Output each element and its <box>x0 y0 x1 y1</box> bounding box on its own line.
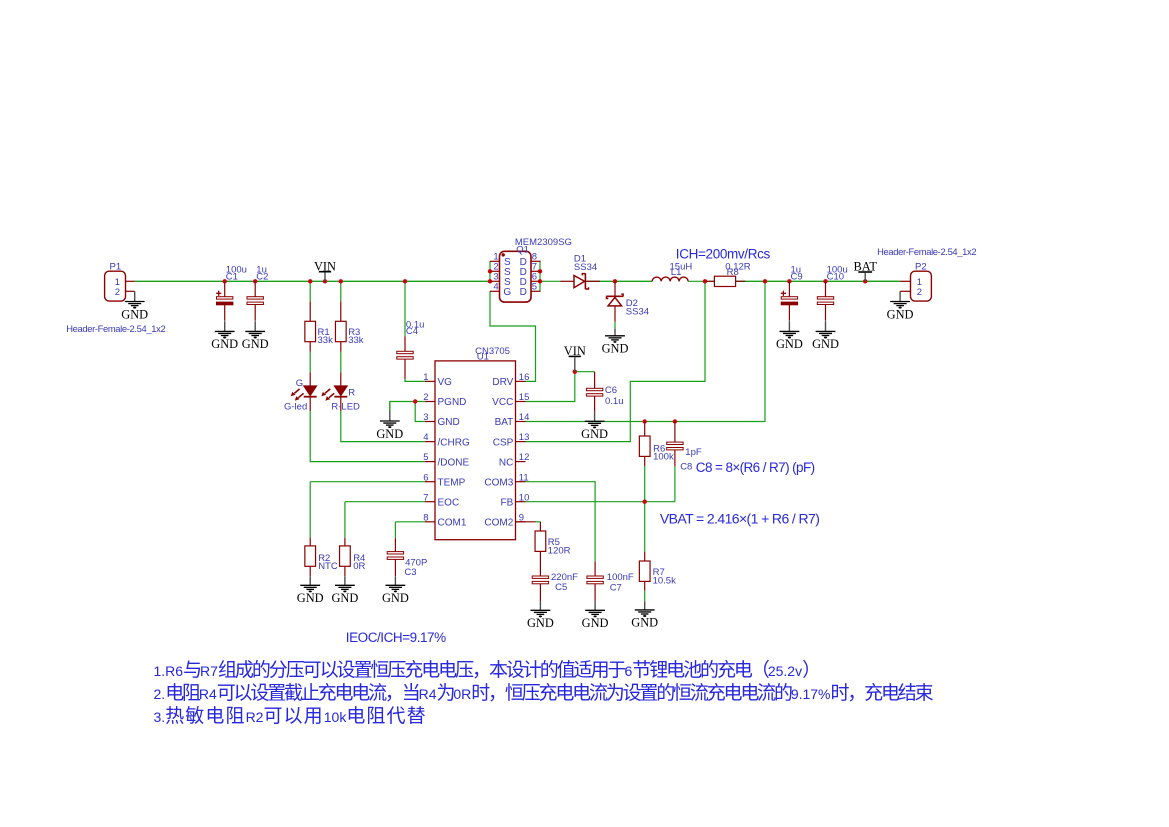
svg-text:GND: GND <box>121 307 148 321</box>
connector P1 Header-Female-2.54_1x2 <box>105 271 126 301</box>
ground at C3 <box>386 576 406 592</box>
junction BAT symbol node <box>863 279 867 283</box>
svg-text:13: 13 <box>519 432 530 443</box>
ground at C1 <box>215 321 235 338</box>
connector P2 Header-Female-2.54_1x2 <box>911 271 932 301</box>
svg-text:1.R6与R7组成的分压可以设置恒压充电电压，本设计的值适用: 1.R6与R7组成的分压可以设置恒压充电电压，本设计的值适用于6节锂电池的充电（… <box>154 659 820 681</box>
svg-text:C10: C10 <box>827 272 844 283</box>
svg-text:VIN: VIN <box>314 259 336 273</box>
junction R6 top on BAT net <box>643 419 647 423</box>
ground at R7 <box>635 601 655 617</box>
wire EOC pin7 horizontal <box>345 501 425 503</box>
wire EOC down to R4 <box>344 502 346 538</box>
svg-text:1: 1 <box>423 372 428 383</box>
svg-text:4: 4 <box>423 432 428 443</box>
wire Q1 source pins tie <box>489 261 491 281</box>
wire Q1 drain pins tie <box>539 261 541 291</box>
svg-text:C8 = 8×(R6 / R7) (pF): C8 = 8×(R6 / R7) (pF) <box>696 460 815 475</box>
junction Q1 source tie B <box>488 279 492 283</box>
svg-text:D: D <box>520 287 527 298</box>
svg-text:Header-Female-2.54_1x2: Header-Female-2.54_1x2 <box>877 246 976 257</box>
svg-text:10.5k: 10.5k <box>653 576 676 587</box>
P2 pin 1 <box>900 280 910 282</box>
svg-text:C1: C1 <box>226 272 238 283</box>
svg-text:G: G <box>296 378 303 389</box>
svg-text:12: 12 <box>519 452 530 463</box>
svg-text:GND: GND <box>812 337 839 351</box>
svg-text:R-LED: R-LED <box>331 402 360 413</box>
svg-text:GND: GND <box>602 342 629 356</box>
svg-text:5: 5 <box>423 452 428 463</box>
wire R7 to ground <box>644 591 646 602</box>
svg-text:8: 8 <box>423 512 428 523</box>
wire COM1 pin8 horizontal <box>395 521 425 523</box>
svg-text:GND: GND <box>631 616 658 630</box>
svg-text:COM3: COM3 <box>484 477 513 488</box>
svg-text:COM1: COM1 <box>438 518 467 529</box>
junction PGND tie node <box>413 399 417 403</box>
power symbol VIN on main rail <box>314 259 336 281</box>
wire R1 to G-led <box>309 352 311 373</box>
svg-text:G: G <box>503 287 511 298</box>
svg-text:R: R <box>348 388 355 399</box>
junction R1 on rail <box>308 279 312 283</box>
wire R3 to R-LED <box>340 352 342 373</box>
capacitor C4 0.1u <box>397 336 413 379</box>
svg-text:VBAT = 2.416×(1 + R6 / R7): VBAT = 2.416×(1 + R6 / R7) <box>660 510 819 526</box>
op-amp U1 CN3705 charger IC <box>425 361 526 540</box>
svg-text:C9: C9 <box>791 272 803 283</box>
LED R-LED <box>321 372 347 411</box>
ground at C5 <box>531 601 551 617</box>
svg-text:VG: VG <box>438 377 453 388</box>
svg-text:1pF: 1pF <box>685 447 702 458</box>
svg-text:GND: GND <box>382 591 409 605</box>
resistor R5 120R <box>516 522 546 576</box>
junction C9 on rail <box>787 279 791 283</box>
svg-text:120R: 120R <box>548 546 571 557</box>
svg-text:U1: U1 <box>477 352 489 363</box>
wire R-LED cathode to /CHRG pin4 <box>341 411 425 442</box>
capacitor C10 100u <box>817 281 833 321</box>
resistor R1 33k <box>305 301 316 351</box>
resistor R6 100k <box>639 422 650 467</box>
svg-text:NTC: NTC <box>318 561 338 572</box>
wire Q1 drain to D1 anode <box>540 280 560 282</box>
svg-text:2: 2 <box>423 392 428 403</box>
svg-text:GND: GND <box>438 417 460 428</box>
svg-text:7: 7 <box>423 492 428 503</box>
capacitor C7 100nF <box>587 561 603 601</box>
svg-text:0.1u: 0.1u <box>605 396 624 407</box>
junction R3 on rail <box>339 279 343 283</box>
svg-text:GND: GND <box>297 591 324 605</box>
wire D1 cathode to L1 <box>587 280 652 282</box>
svg-text:SS34: SS34 <box>626 307 649 318</box>
resistor R2 NTC <box>305 538 316 577</box>
wire TEMP down to R2 <box>309 482 311 538</box>
svg-text:100nF: 100nF <box>607 572 634 583</box>
wire C8 bottom to FB <box>674 466 676 502</box>
junction C4 on rail <box>403 279 407 283</box>
ground at PGND pins 2-3 <box>380 411 400 428</box>
ground at C10 <box>816 321 836 338</box>
ground at C9 <box>780 321 800 338</box>
svg-text:15: 15 <box>519 392 530 403</box>
P2 pin 2 <box>900 290 910 292</box>
ground at P1 pin2 <box>125 291 145 308</box>
junction VIN/VCC/C6 node <box>573 370 577 374</box>
inductor L1 15uH <box>652 277 688 281</box>
junction Q1 drain tie B <box>538 279 542 283</box>
wire TEMP pin6 horizontal <box>310 481 425 483</box>
ground at C2 <box>245 321 265 338</box>
svg-text:/DONE: /DONE <box>438 457 470 468</box>
svg-text:2.电阻R4可以设置截止充电电流，当R4为0R时，恒压充电电: 2.电阻R4可以设置截止充电电流，当R4为0R时，恒压充电电流为设置的恒流充电电… <box>154 682 934 704</box>
ground at R4 <box>335 576 355 592</box>
svg-text:C4: C4 <box>406 326 418 337</box>
junction C10 on rail <box>823 279 827 283</box>
wire PGND tie to GND pin3 <box>415 402 425 422</box>
wire R6 bottom to FB <box>644 466 646 502</box>
diode D2 SS34 (schottky to GND) <box>606 281 623 322</box>
svg-text:BAT: BAT <box>853 260 877 274</box>
power symbol BAT on battery rail <box>853 260 877 282</box>
junction FB divider node <box>643 500 647 504</box>
svg-text:Q1: Q1 <box>516 244 529 255</box>
svg-text:DRV: DRV <box>492 377 513 388</box>
svg-text:PGND: PGND <box>438 397 467 408</box>
wire R8 to P2 (BAT rail) <box>736 280 901 282</box>
junction C2 on rail <box>253 279 257 283</box>
resistor R4 0R <box>340 538 351 577</box>
LED G-led <box>291 372 317 411</box>
capacitor C3 470P <box>387 538 403 576</box>
capacitor C5 220nF <box>532 576 548 601</box>
svg-text:C3: C3 <box>404 567 416 578</box>
wire rail to R3 <box>340 281 342 301</box>
svg-text:C6: C6 <box>605 385 617 396</box>
transistor Q1 MEM2309SG dual PMOS <box>490 251 541 302</box>
svg-text:4: 4 <box>493 281 498 292</box>
svg-text:GND: GND <box>211 337 238 351</box>
wire VCC pin15 to VIN node and C6 <box>526 372 595 402</box>
resistor R7 10.5k <box>639 552 650 591</box>
svg-text:6: 6 <box>423 472 428 483</box>
resistor R3 33k <box>335 301 346 351</box>
svg-text:2: 2 <box>115 287 120 298</box>
svg-text:VCC: VCC <box>492 397 513 408</box>
svg-text:16: 16 <box>519 372 530 383</box>
svg-text:C8: C8 <box>680 462 692 473</box>
svg-text:0R: 0R <box>353 561 365 572</box>
svg-text:TEMP: TEMP <box>438 477 466 488</box>
svg-text:11: 11 <box>519 472 529 483</box>
junction D2 on rail <box>613 279 617 283</box>
wire main rail VIN from P1 to Q1 source <box>135 280 490 282</box>
svg-text:33k: 33k <box>318 335 334 346</box>
wire PGND pin2 to ground <box>390 402 425 412</box>
wire COM3 pin11 to C7 <box>526 482 596 562</box>
svg-text:Header-Female-2.54_1x2: Header-Female-2.54_1x2 <box>66 323 165 334</box>
wire L1 to R8 <box>688 280 714 282</box>
svg-text:5: 5 <box>532 281 537 292</box>
wire COM2 pin9 to R5 <box>536 521 541 523</box>
ground at D2 <box>605 329 625 343</box>
wire BAT pin14 to battery rail <box>526 281 766 421</box>
svg-text:EOC: EOC <box>438 497 460 508</box>
svg-text:L1: L1 <box>671 267 682 278</box>
ground at R2 <box>300 576 320 592</box>
wire CSP sense from rail node to pin13 <box>526 281 706 441</box>
svg-text:VIN: VIN <box>564 344 586 358</box>
svg-text:ICH=200mv/Rcs: ICH=200mv/Rcs <box>676 246 771 261</box>
svg-text:C5: C5 <box>555 582 567 593</box>
P1 pin 1 <box>126 280 135 282</box>
svg-text:R8: R8 <box>727 267 739 278</box>
wire COM1 down to C3 <box>394 522 396 539</box>
svg-text:GND: GND <box>581 427 608 441</box>
svg-text:GND: GND <box>776 337 803 351</box>
junction C1 on rail <box>223 279 227 283</box>
svg-text:GND: GND <box>887 307 914 321</box>
svg-text:COM2: COM2 <box>484 518 513 529</box>
svg-text:GND: GND <box>242 337 269 351</box>
svg-text:2: 2 <box>917 287 922 298</box>
svg-text:FB: FB <box>501 497 514 508</box>
resistor R8 0.12R current sense <box>706 276 745 286</box>
wire rail to C4 <box>404 281 406 336</box>
junction VIN on rail <box>323 279 327 283</box>
svg-text:CSP: CSP <box>493 437 514 448</box>
svg-text:GND: GND <box>331 591 358 605</box>
wire rail to R1 <box>309 281 311 301</box>
wire PGND ground drop <box>389 402 391 412</box>
junction Q1 source tie A <box>488 269 492 273</box>
capacitor C9 1u (polarized) <box>781 281 798 321</box>
wire FB down to R7 <box>644 502 646 552</box>
svg-text:3: 3 <box>423 412 428 423</box>
svg-text:GND: GND <box>582 616 609 630</box>
svg-text:10: 10 <box>519 492 530 503</box>
ground at C6 <box>585 411 605 428</box>
capacitor C1 100u (polarized) <box>216 281 233 321</box>
junction CSP sense node <box>703 279 707 283</box>
svg-text:IEOC/ICH=9.17%: IEOC/ICH=9.17% <box>346 630 446 645</box>
ground at P2 pin2 <box>890 291 910 308</box>
svg-text:C2: C2 <box>256 272 268 283</box>
svg-text:BAT: BAT <box>495 417 514 428</box>
wire BAT node to P2 pin1 <box>865 280 900 282</box>
wire C4 to VG pin1 <box>405 379 425 382</box>
svg-text:GND: GND <box>527 616 554 630</box>
svg-text:P1: P1 <box>110 261 122 272</box>
svg-text:33k: 33k <box>348 335 364 346</box>
svg-text:3.热敏电阻R2可以用10k电阻代替: 3.热敏电阻R2可以用10k电阻代替 <box>154 705 427 727</box>
svg-text:NC: NC <box>499 457 513 468</box>
svg-text:/CHRG: /CHRG <box>438 437 470 448</box>
wire D2 anode to ground <box>614 322 616 329</box>
wire FB pin10 feedback node <box>526 501 675 503</box>
svg-text:GND: GND <box>376 427 403 441</box>
svg-text:G-led: G-led <box>284 402 307 413</box>
svg-text:100k: 100k <box>653 451 674 462</box>
junction Q1 drain tie A <box>538 269 542 273</box>
wire Q1 gate to DRV pin16 <box>490 291 536 381</box>
svg-text:SS34: SS34 <box>574 262 597 273</box>
capacitor C2 1u <box>247 281 263 321</box>
capacitor C8 1pF <box>667 422 683 467</box>
diode D1 SS34 (schottky) <box>560 273 600 289</box>
svg-text:P2: P2 <box>915 262 927 273</box>
P1 pin 2 <box>126 290 135 292</box>
power symbol VIN at VCC <box>564 344 586 372</box>
svg-text:14: 14 <box>519 412 530 423</box>
svg-text:C7: C7 <box>610 582 622 593</box>
junction BAT wire to rail <box>763 279 767 283</box>
capacitor C6 0.1u <box>586 372 602 412</box>
ground at C7 <box>585 601 605 617</box>
wire G-led cathode to /DONE pin5 <box>310 411 425 462</box>
junction C8 top on BAT net <box>673 419 677 423</box>
